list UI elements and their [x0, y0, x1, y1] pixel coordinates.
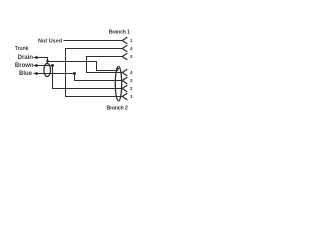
arrowhead: drain into trunk ellipse: [46, 60, 50, 64]
svg-text:Drain: Drain: [18, 55, 34, 61]
wire: drain shield link to branch2: [48, 62, 116, 71]
chevron B1 pin1: [122, 37, 127, 44]
arrowhead: Drain left: [33, 56, 38, 60]
wire: Branch1 pin3 net to Branch2 pin4: [87, 57, 123, 73]
junction dot brown: [51, 64, 54, 67]
arrowhead: shield into branch2 ellipse: [116, 68, 119, 71]
wire: Blue net to Branch2 pin3: [75, 74, 123, 81]
wire: Brown lead: [36, 65, 53, 67]
svg-text:Branch 2: Branch 2: [107, 105, 128, 111]
chevron B2 pin3: [122, 77, 127, 84]
svg-text:Brown: Brown: [15, 63, 34, 69]
chevron B2 pin1: [122, 93, 127, 100]
junction dot blue: [73, 72, 76, 75]
wire: Branch1 pin4 net to Branch2 pin1: [66, 49, 123, 97]
arrowhead: Brown left: [33, 64, 38, 68]
chevron B1 pin4: [122, 45, 127, 52]
wire: Blue lead: [36, 73, 75, 75]
chevron B2 pin4: [122, 69, 127, 76]
svg-text:Blue: Blue: [19, 71, 33, 77]
arrowhead: Blue left: [33, 72, 38, 76]
branch2 cable ellipse: [115, 66, 121, 101]
chevron B2 pin2: [122, 85, 127, 92]
wire: Brown net to Branch2 pin2: [53, 66, 123, 89]
svg-text:Not Used: Not Used: [38, 38, 62, 44]
wire: Drain lead: [36, 58, 48, 61]
chevron B1 pin3: [122, 53, 127, 60]
svg-text:Branch 1: Branch 1: [109, 30, 130, 36]
svg-text:Trunk: Trunk: [15, 46, 29, 52]
trunk cable ellipse: [44, 64, 51, 77]
wire: Not Used to Branch1 pin1: [64, 40, 123, 42]
